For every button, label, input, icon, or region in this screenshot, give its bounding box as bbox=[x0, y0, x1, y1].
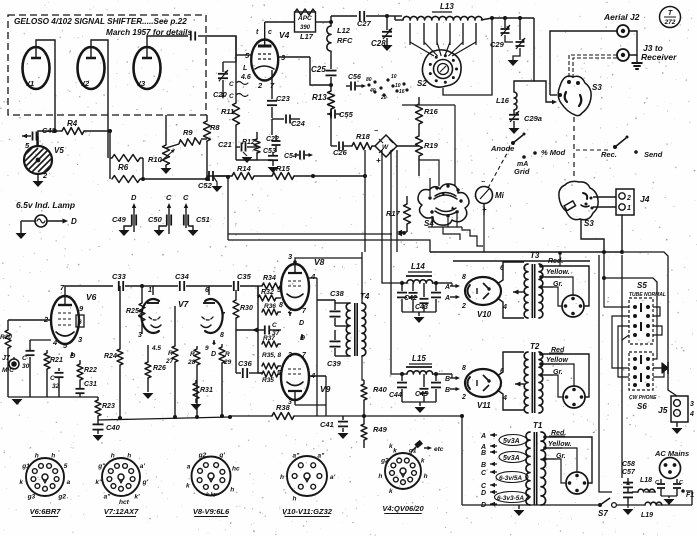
svg-text:AC Mains: AC Mains bbox=[654, 449, 689, 458]
svg-text:R6: R6 bbox=[118, 163, 129, 172]
svg-text:D: D bbox=[71, 217, 77, 226]
svg-text:8: 8 bbox=[462, 274, 466, 281]
svg-text:R49: R49 bbox=[373, 425, 388, 434]
svg-text:R18: R18 bbox=[356, 132, 371, 141]
svg-text:B: B bbox=[481, 462, 486, 469]
svg-text:C24: C24 bbox=[291, 119, 306, 128]
svg-text:Red.: Red. bbox=[548, 258, 563, 265]
svg-text:C21: C21 bbox=[218, 140, 232, 149]
svg-text:R35: R35 bbox=[262, 377, 274, 384]
svg-text:4: 4 bbox=[52, 338, 58, 347]
svg-text:RFC: RFC bbox=[337, 36, 353, 45]
svg-text:R30: R30 bbox=[240, 305, 253, 312]
svg-text:V7: V7 bbox=[178, 299, 190, 309]
svg-text:Anode: Anode bbox=[490, 144, 514, 153]
svg-text:Grid: Grid bbox=[514, 167, 530, 176]
svg-text:% Mod: % Mod bbox=[541, 148, 566, 157]
svg-text:D: D bbox=[299, 320, 304, 327]
svg-text:Rec.: Rec. bbox=[601, 150, 617, 159]
svg-text:h: h bbox=[51, 452, 55, 459]
svg-text:h: h bbox=[111, 452, 115, 459]
svg-text:a: a bbox=[187, 464, 191, 471]
svg-text:27: 27 bbox=[165, 358, 174, 365]
svg-text:CW PHONE: CW PHONE bbox=[629, 395, 657, 401]
svg-text:R19: R19 bbox=[424, 141, 439, 150]
svg-text:Yellow.: Yellow. bbox=[546, 269, 570, 276]
svg-text:R35, 8: R35, 8 bbox=[262, 352, 282, 359]
svg-text:C: C bbox=[50, 375, 55, 382]
svg-text:C57: C57 bbox=[622, 469, 636, 476]
svg-text:h: h bbox=[230, 486, 234, 493]
svg-text:h: h bbox=[293, 496, 297, 503]
svg-text:C35: C35 bbox=[237, 272, 252, 281]
svg-text:R32: R32 bbox=[261, 289, 274, 296]
svg-text:R36: R36 bbox=[264, 303, 276, 310]
svg-text:W: W bbox=[382, 144, 389, 151]
svg-text:V1: V1 bbox=[25, 79, 34, 88]
svg-text:C41: C41 bbox=[320, 420, 334, 429]
svg-text:C34: C34 bbox=[175, 272, 190, 281]
svg-text:GELOSO 4/102 SIGNAL SHIFTER...: GELOSO 4/102 SIGNAL SHIFTER.....See p.22 bbox=[14, 17, 187, 26]
svg-text:C: C bbox=[166, 193, 172, 202]
svg-text:F1: F1 bbox=[686, 492, 694, 499]
svg-text:g": g" bbox=[97, 463, 106, 470]
svg-text:C51: C51 bbox=[196, 215, 210, 224]
svg-text:k: k bbox=[389, 443, 393, 450]
svg-text:C23: C23 bbox=[276, 94, 291, 103]
svg-text:R8: R8 bbox=[210, 123, 220, 132]
svg-text:2: 2 bbox=[461, 303, 466, 310]
svg-text:Send: Send bbox=[644, 150, 663, 159]
svg-text:5: 5 bbox=[64, 463, 68, 470]
svg-text:C38: C38 bbox=[330, 289, 345, 298]
svg-text:C58: C58 bbox=[622, 461, 635, 468]
svg-text:a": a" bbox=[293, 452, 301, 459]
svg-text:4: 4 bbox=[310, 272, 316, 281]
svg-text:1: 1 bbox=[148, 287, 152, 294]
svg-text:C56: C56 bbox=[348, 74, 361, 81]
svg-text:−: − bbox=[481, 179, 485, 186]
svg-text:k': k' bbox=[134, 493, 140, 500]
svg-text:R21: R21 bbox=[50, 357, 63, 364]
svg-text:k": k" bbox=[95, 479, 103, 486]
svg-text:2: 2 bbox=[137, 311, 142, 318]
svg-text:V4: V4 bbox=[279, 30, 290, 40]
svg-text:c: c bbox=[268, 29, 272, 36]
svg-text:Yellow.: Yellow. bbox=[548, 441, 572, 448]
svg-text:R23: R23 bbox=[102, 403, 115, 410]
svg-text:A: A bbox=[444, 284, 450, 291]
svg-text:C22: C22 bbox=[266, 136, 279, 143]
svg-text:390: 390 bbox=[300, 25, 311, 31]
svg-text:J5: J5 bbox=[658, 405, 668, 415]
svg-text:S7: S7 bbox=[598, 509, 608, 518]
svg-text:2: 2 bbox=[42, 171, 48, 180]
svg-text:L18: L18 bbox=[640, 477, 652, 484]
svg-text:8: 8 bbox=[220, 332, 224, 339]
svg-text:J4: J4 bbox=[640, 194, 650, 204]
svg-text:A: A bbox=[480, 433, 486, 440]
svg-text:L17: L17 bbox=[300, 32, 314, 41]
svg-text:C50: C50 bbox=[148, 215, 163, 224]
svg-text:V3: V3 bbox=[136, 79, 146, 88]
svg-text:S5: S5 bbox=[637, 281, 647, 290]
svg-text:R14: R14 bbox=[237, 164, 252, 173]
svg-text:1: 1 bbox=[627, 205, 631, 212]
svg-text:3: 3 bbox=[690, 401, 694, 408]
svg-text:C53: C53 bbox=[263, 148, 276, 155]
svg-text:4.6: 4.6 bbox=[240, 74, 251, 81]
svg-text:V9: V9 bbox=[320, 384, 331, 394]
svg-text:R9: R9 bbox=[183, 128, 193, 137]
svg-text:R13: R13 bbox=[312, 93, 327, 102]
svg-text:C26: C26 bbox=[333, 148, 348, 157]
svg-text:k: k bbox=[19, 479, 23, 486]
svg-text:S6: S6 bbox=[637, 402, 647, 411]
svg-text:k: k bbox=[421, 458, 425, 465]
svg-text:h: h bbox=[280, 474, 284, 481]
svg-text:2: 2 bbox=[287, 352, 292, 359]
svg-text:T1: T1 bbox=[533, 421, 543, 430]
svg-text:R24: R24 bbox=[104, 353, 117, 360]
svg-text:C33: C33 bbox=[112, 272, 127, 281]
svg-text:8: 8 bbox=[462, 365, 466, 372]
svg-text:a": a" bbox=[318, 452, 326, 459]
svg-text:R25: R25 bbox=[126, 308, 139, 315]
svg-text:J7: J7 bbox=[2, 355, 11, 362]
svg-text:h: h bbox=[35, 452, 39, 459]
svg-text:+: + bbox=[376, 156, 381, 165]
svg-text:V8-V9:6L6: V8-V9:6L6 bbox=[193, 507, 230, 516]
svg-text:30: 30 bbox=[22, 363, 30, 370]
svg-text:5v3A: 5v3A bbox=[503, 438, 520, 445]
svg-text:V6:6BR7: V6:6BR7 bbox=[30, 507, 62, 516]
svg-text:10: 10 bbox=[391, 74, 397, 80]
svg-text:4: 4 bbox=[689, 411, 694, 418]
svg-text:−: − bbox=[374, 128, 378, 135]
svg-text:80: 80 bbox=[366, 77, 372, 83]
svg-text:g': g' bbox=[218, 452, 225, 459]
svg-text:R17: R17 bbox=[386, 209, 401, 218]
svg-text:L19: L19 bbox=[641, 512, 653, 519]
svg-text:5: 5 bbox=[277, 370, 281, 377]
svg-text:28: 28 bbox=[187, 359, 196, 366]
svg-text:g2: g2 bbox=[198, 452, 207, 459]
svg-text:R16: R16 bbox=[424, 107, 439, 116]
svg-text:APC: APC bbox=[297, 15, 312, 22]
svg-text:g1: g1 bbox=[21, 463, 30, 470]
svg-text:S2: S2 bbox=[417, 79, 427, 88]
svg-text:C: C bbox=[229, 93, 234, 100]
svg-text:hct: hct bbox=[119, 499, 130, 506]
svg-text:V7:12AX7: V7:12AX7 bbox=[104, 507, 139, 516]
svg-text:hc: hc bbox=[232, 466, 240, 473]
svg-text:C: C bbox=[229, 81, 234, 88]
svg-text:3: 3 bbox=[138, 332, 142, 339]
svg-text:32: 32 bbox=[52, 383, 60, 390]
svg-text:etc: etc bbox=[434, 446, 444, 453]
svg-text:4.5: 4.5 bbox=[151, 345, 161, 352]
svg-text:R40: R40 bbox=[373, 385, 388, 394]
svg-text:R: R bbox=[190, 351, 195, 358]
svg-text:C54: C54 bbox=[284, 153, 297, 160]
svg-text:R: R bbox=[225, 351, 230, 358]
svg-text:6: 6 bbox=[205, 287, 209, 294]
svg-text:C29a: C29a bbox=[524, 114, 542, 123]
svg-text:C20: C20 bbox=[213, 90, 228, 99]
svg-text:R26: R26 bbox=[153, 365, 166, 372]
svg-text:k: k bbox=[186, 482, 190, 489]
svg-text:6.5v Ind. Lamp: 6.5v Ind. Lamp bbox=[16, 200, 75, 210]
svg-text:L15: L15 bbox=[412, 354, 426, 363]
svg-text:R34: R34 bbox=[263, 275, 276, 282]
svg-text:40: 40 bbox=[369, 88, 376, 94]
svg-text:B: B bbox=[445, 387, 450, 394]
svg-text:k: k bbox=[389, 488, 393, 495]
svg-text:L: L bbox=[243, 65, 247, 72]
svg-text:2: 2 bbox=[626, 195, 631, 202]
svg-text:L16: L16 bbox=[496, 96, 510, 105]
svg-text:a": a" bbox=[104, 493, 112, 500]
svg-text:h: h bbox=[378, 473, 382, 480]
svg-text:C43: C43 bbox=[415, 304, 428, 311]
svg-text:g2: g2 bbox=[57, 493, 66, 500]
svg-text:T2: T2 bbox=[530, 342, 540, 351]
svg-text:R20: R20 bbox=[0, 334, 12, 341]
svg-text:272: 272 bbox=[664, 19, 676, 26]
svg-text:A: A bbox=[444, 295, 450, 302]
svg-text:D: D bbox=[131, 193, 137, 202]
svg-text:R22: R22 bbox=[84, 367, 97, 374]
svg-text:h: h bbox=[127, 452, 131, 459]
svg-text:C28: C28 bbox=[371, 39, 386, 48]
svg-text:C44: C44 bbox=[389, 392, 402, 399]
svg-text:C25: C25 bbox=[311, 65, 326, 74]
svg-text:5: 5 bbox=[277, 287, 281, 294]
svg-text:C: C bbox=[22, 355, 27, 362]
svg-text:R15: R15 bbox=[276, 164, 291, 173]
svg-text:20: 20 bbox=[380, 95, 387, 101]
svg-text:h: h bbox=[424, 473, 428, 480]
svg-text:R37: R37 bbox=[263, 335, 275, 342]
svg-text:g': g' bbox=[142, 479, 149, 486]
svg-text:6: 6 bbox=[78, 319, 82, 326]
svg-text:C36: C36 bbox=[238, 359, 253, 368]
svg-text:S3: S3 bbox=[584, 219, 594, 228]
svg-text:S3: S3 bbox=[592, 83, 602, 92]
svg-text:k: k bbox=[393, 447, 397, 454]
svg-text:C52: C52 bbox=[198, 181, 213, 190]
svg-text:g3: g3 bbox=[27, 493, 36, 500]
svg-text:5v3A: 5v3A bbox=[503, 455, 520, 462]
svg-text:a': a' bbox=[330, 474, 336, 481]
svg-text:k.kp: k.kp bbox=[206, 492, 218, 498]
svg-text:L13: L13 bbox=[440, 2, 454, 11]
svg-text:D: D bbox=[481, 490, 486, 497]
svg-text:R31: R31 bbox=[200, 387, 213, 394]
svg-text:a: a bbox=[67, 479, 71, 486]
svg-text:T3: T3 bbox=[530, 251, 540, 260]
svg-text:R: R bbox=[168, 350, 173, 357]
svg-text:Yellow: Yellow bbox=[546, 357, 568, 364]
svg-text:g2: g2 bbox=[380, 458, 389, 465]
svg-text:C27: C27 bbox=[357, 19, 372, 28]
svg-text:D: D bbox=[211, 351, 216, 358]
svg-text:C40: C40 bbox=[106, 423, 121, 432]
svg-text:V10-V11:GZ32: V10-V11:GZ32 bbox=[282, 507, 333, 516]
svg-text:R11: R11 bbox=[221, 107, 234, 116]
svg-text:Mi: Mi bbox=[495, 191, 505, 200]
svg-text:a': a' bbox=[140, 463, 146, 470]
svg-text:C: C bbox=[272, 322, 277, 329]
svg-text:L14: L14 bbox=[411, 262, 425, 271]
svg-text:B: B bbox=[445, 376, 450, 383]
svg-text:B: B bbox=[481, 450, 486, 457]
svg-text:R12: R12 bbox=[242, 139, 255, 146]
svg-text:L12: L12 bbox=[337, 26, 351, 35]
svg-text:V4:QV06/20: V4:QV06/20 bbox=[382, 504, 424, 513]
svg-text:9: 9 bbox=[205, 345, 209, 352]
svg-text:16: 16 bbox=[399, 89, 405, 95]
svg-text:Aerial J2: Aerial J2 bbox=[603, 12, 640, 22]
svg-text:2: 2 bbox=[257, 81, 263, 90]
svg-text:V10: V10 bbox=[477, 310, 492, 319]
svg-text:V5: V5 bbox=[54, 146, 64, 155]
svg-text:C45: C45 bbox=[415, 391, 428, 398]
svg-text:29: 29 bbox=[223, 359, 232, 366]
svg-text:C49: C49 bbox=[112, 215, 127, 224]
svg-text:8: 8 bbox=[279, 302, 283, 309]
svg-text:R38: R38 bbox=[276, 403, 291, 412]
svg-text:V6: V6 bbox=[86, 292, 97, 302]
svg-text:T: T bbox=[668, 10, 673, 17]
svg-text:C42: C42 bbox=[404, 295, 417, 302]
svg-text:R10: R10 bbox=[148, 155, 163, 164]
svg-text:C31: C31 bbox=[84, 381, 97, 388]
svg-text:C: C bbox=[183, 193, 189, 202]
svg-text:V11: V11 bbox=[477, 401, 491, 410]
